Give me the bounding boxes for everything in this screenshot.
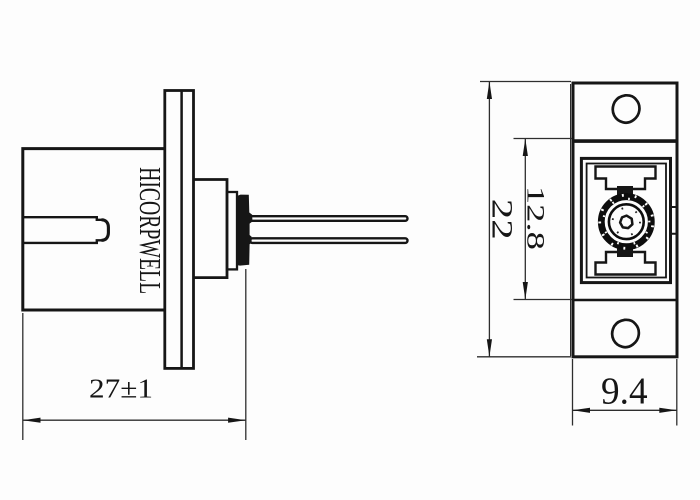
svg-text:9.4: 9.4 bbox=[601, 371, 648, 413]
svg-text:27±1: 27±1 bbox=[89, 374, 153, 404]
svg-text:HICORPWELL: HICORPWELL bbox=[133, 167, 168, 294]
svg-text:22: 22 bbox=[485, 199, 518, 240]
svg-text:12.8: 12.8 bbox=[522, 186, 549, 250]
